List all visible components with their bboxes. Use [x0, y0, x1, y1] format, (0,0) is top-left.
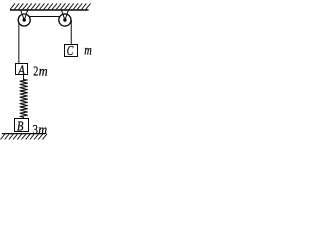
wire rope from right pulley down to block C	[70, 20, 72, 45]
ceiling hatching	[10, 3, 91, 9]
svg-text:A: A	[17, 64, 25, 79]
ground hatching	[1, 134, 48, 140]
svg-text:2m: 2m	[33, 65, 47, 80]
svg-text:3m: 3m	[33, 123, 47, 138]
background	[0, 0, 95, 142]
svg-text:m: m	[84, 43, 92, 58]
axle dot of pulley P1	[23, 18, 26, 21]
wire rope from left pulley down to block A	[18, 20, 20, 64]
spring between A and B	[20, 75, 27, 119]
block C	[65, 45, 78, 57]
pulley P1 (left)	[18, 14, 30, 26]
pulley P2 (right)	[59, 14, 71, 26]
bracket of pulley P2	[62, 10, 69, 20]
wire horizontal rope between pulleys	[28, 16, 60, 18]
block A	[16, 64, 28, 75]
block B	[15, 119, 29, 132]
svg-text:B: B	[17, 120, 24, 135]
svg-text:C: C	[67, 44, 74, 59]
axle dot of pulley P2	[63, 18, 66, 21]
ground line	[2, 133, 45, 135]
bracket of pulley P1	[21, 10, 28, 20]
ceiling line	[10, 9, 89, 11]
